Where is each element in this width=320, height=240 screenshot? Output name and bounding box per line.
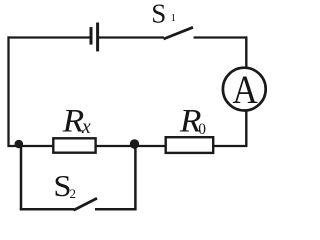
svg-text:A: A	[232, 68, 258, 113]
resistor R0 box	[166, 137, 214, 153]
wire S2 branch bottom-left horizontal	[20, 208, 74, 211]
svg-text:0: 0	[198, 121, 206, 138]
node junction dot left (Rx / S2 branch)	[14, 140, 23, 149]
svg-text:R: R	[62, 103, 85, 139]
resistor Rx box	[53, 138, 95, 152]
wire middle row left segment (Rx to left side)	[8, 145, 54, 147]
wire switch S1 to top-right corner	[194, 36, 248, 38]
svg-text:x: x	[81, 117, 91, 138]
ammeter A circle	[223, 68, 266, 111]
wire left vertical side	[7, 36, 9, 147]
wire S2 branch left vertical	[20, 146, 23, 210]
wire top-left horizontal from left corner to battery	[8, 36, 90, 38]
wire right vertical upper (to ammeter)	[245, 36, 247, 67]
wire middle row between R0 and Rx	[96, 145, 166, 147]
wire middle row right segment (corner to R0)	[213, 145, 248, 147]
wire S2 branch right vertical	[134, 146, 137, 211]
switch S2 lever (open)	[74, 198, 98, 210]
svg-text:2: 2	[70, 186, 77, 201]
svg-text:S: S	[151, 0, 166, 28]
switch S1 lever (open)	[164, 27, 194, 39]
wire right vertical lower (ammeter to middle row)	[245, 111, 247, 148]
node junction dot right (Rx / S2 branch)	[130, 139, 139, 148]
wire S2 branch bottom-right horizontal	[95, 208, 137, 211]
battery cell (short plate, negative terminal)	[90, 27, 93, 44]
svg-text:1: 1	[171, 12, 177, 24]
wire battery to switch S1	[99, 36, 164, 38]
battery cell (long plate, positive terminal)	[96, 23, 99, 52]
